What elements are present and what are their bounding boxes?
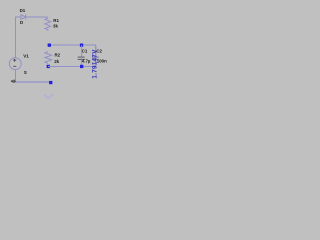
wire: middle horizontal net [47,44,96,46]
svg-text:V1: V1 [23,53,29,58]
ground [12,80,16,84]
svg-text:3k: 3k [53,24,58,29]
background [0,0,120,104]
node: junction dot below R2 [47,65,50,68]
svg-text:1.79147V: 1.79147V [92,49,99,79]
wire: top horizontal from corner to R1 top [15,16,47,18]
node: junction dot at ground rail end [49,81,52,84]
voltage source V1 [9,58,21,70]
wire: lower horizontal net [48,65,96,67]
svg-text:D1: D1 [20,8,26,13]
svg-text:S: S [24,70,27,75]
node: junction dot below R1 [48,44,51,47]
node: junction dot above C1 [80,44,83,47]
resistor R2 [45,52,52,64]
capacitor C2 [93,45,99,66]
node: junction dot below C1 [80,65,83,68]
svg-text:R2: R2 [55,52,61,57]
svg-text:C1: C1 [82,48,88,53]
wire: left vertical riser from D1 anode corner down to V1 top [15,17,17,58]
svg-text:2k: 2k [54,59,59,64]
resistor R1 [45,17,51,31]
svg-text:4.7µ: 4.7µ [82,59,91,64]
capacitor C1 [78,45,85,66]
svg-text:R1: R1 [53,18,59,23]
diode D1 [21,15,26,20]
wire: bottom ground rail horizontal [15,81,50,83]
svg-text:D: D [20,20,23,25]
chevron scroll arrow [44,95,53,99]
wire: from V1 bottom down to ground rail corner [15,70,17,83]
